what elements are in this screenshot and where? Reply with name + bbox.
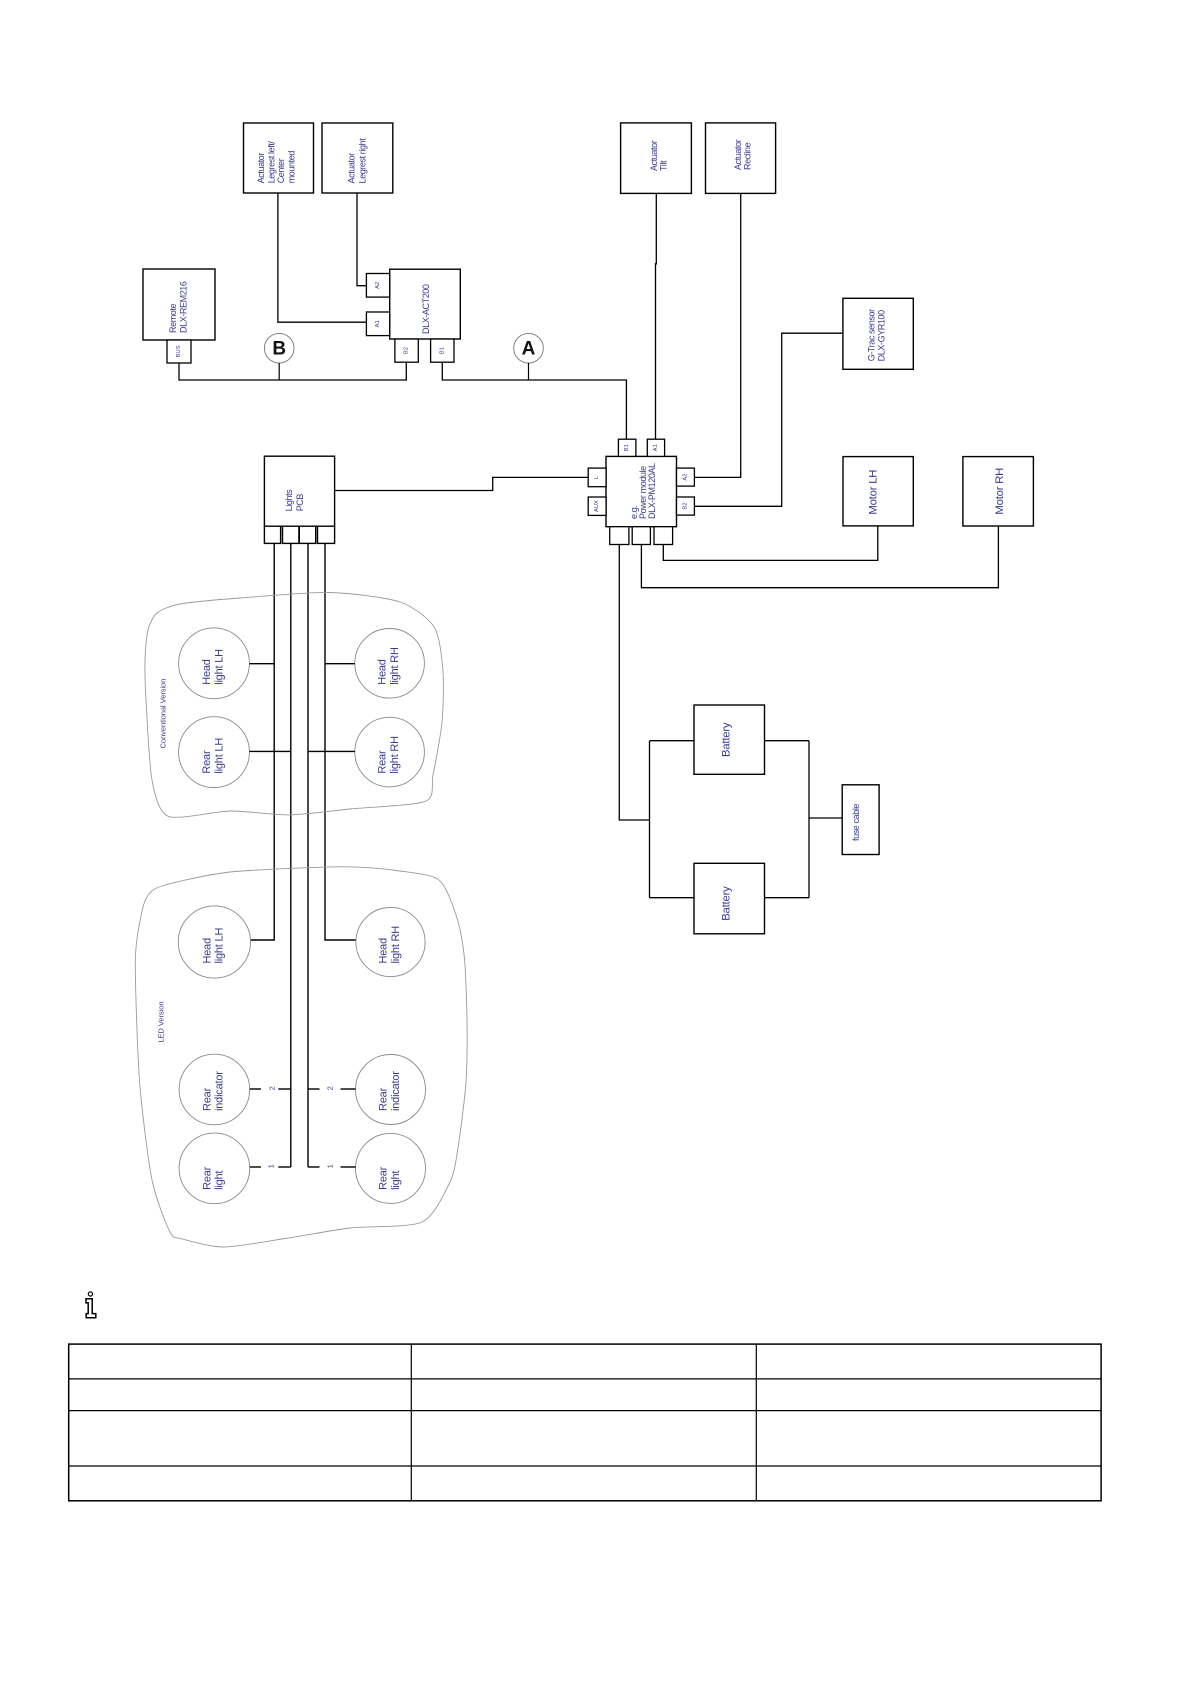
wire Rear light LH tap (249, 750, 290, 752)
connector B2 of power module (677, 497, 695, 515)
svg-text:1: 1 (326, 1164, 335, 1168)
wire Remote BUS to ACT200 B2 (bus B) (179, 362, 406, 380)
wire Rear indicator LH tap segment a (250, 1088, 261, 1090)
wire Actuator Legrest left to ACT200 A1 (278, 193, 367, 322)
node B callout circle (264, 333, 294, 363)
svg-text:Rear: Rear (201, 1166, 213, 1190)
svg-text:DLX-PM120AL: DLX-PM120AL (647, 463, 657, 519)
svg-text:indicator: indicator (214, 1071, 226, 1111)
wire battery left bus (649, 741, 651, 898)
box G-Trac sensor DLX-GYR100 (843, 298, 913, 369)
circle Head light RH (conventional) (355, 629, 425, 699)
svg-text:Head: Head (201, 938, 213, 964)
svg-text:Motor RH: Motor RH (994, 468, 1006, 515)
wire lights line 4 (325, 543, 356, 940)
svg-text:G-Trac sensor: G-Trac sensor (867, 309, 877, 361)
svg-text:light LH: light LH (213, 649, 225, 685)
svg-text:DLX-REM216: DLX-REM216 (179, 281, 189, 333)
wire power module M3 to Motor LH (663, 526, 878, 561)
wire Actuator Recline to power module A2 (694, 193, 740, 477)
svg-text:light RH: light RH (390, 926, 402, 964)
connector AUX of power module (588, 497, 606, 515)
svg-text:2: 2 (268, 1086, 277, 1090)
svg-text:A2: A2 (375, 282, 381, 289)
svg-text:Remote: Remote (168, 303, 178, 333)
wire lights line 2 (290, 543, 292, 1167)
svg-text:light LH: light LH (214, 928, 226, 964)
info icon (outlined i) (88, 1292, 92, 1296)
wire Rear light LH tap segment a (250, 1166, 261, 1168)
wire Lights PCB to power module L (335, 477, 589, 490)
svg-text:Battery: Battery (720, 722, 732, 757)
connector M2 of power module (bottom middle) (632, 527, 650, 545)
connector 1 of Lights PCB (264, 526, 280, 543)
wire battery lower left (650, 897, 695, 899)
svg-text:AUX: AUX (594, 500, 600, 512)
wire G-Trac sensor to power module B2 (694, 333, 843, 506)
box Motor RH (963, 457, 1034, 526)
box fuse cable (842, 785, 879, 855)
connector A2 of power module (677, 468, 695, 486)
wire battery upper left (650, 740, 695, 742)
svg-text:Head: Head (201, 659, 213, 685)
svg-text:indicator: indicator (390, 1071, 402, 1111)
svg-text:fuse cable: fuse cable (851, 804, 861, 841)
node A callout circle (514, 333, 544, 363)
svg-text:Actuator: Actuator (256, 153, 266, 184)
svg-text:Legrest left/: Legrest left/ (266, 141, 276, 184)
circle Rear light LH (LED) (179, 1133, 250, 1204)
svg-text:1: 1 (267, 1164, 276, 1168)
wire Actuator Tilt to power module A1 (655, 193, 658, 439)
svg-text:mounted: mounted (287, 151, 297, 184)
wire Rear light RH tap segment b (341, 1166, 356, 1168)
wire battery upper right (765, 740, 810, 742)
svg-text:B: B (272, 339, 286, 360)
svg-text:A2: A2 (682, 474, 688, 481)
box Battery lower (694, 863, 765, 934)
svg-text:Actuator: Actuator (649, 140, 659, 171)
svg-text:LED Version: LED Version (156, 1002, 165, 1043)
connector L of power module (588, 468, 606, 487)
connector 2 of Lights PCB (283, 526, 299, 543)
svg-text:Lights: Lights (284, 489, 294, 512)
wire Actuator Legrest right to ACT200 A2 (357, 193, 366, 286)
outline LED Version group (135, 867, 467, 1247)
svg-text:Head: Head (378, 938, 390, 964)
box Battery upper (694, 705, 765, 774)
table (empty 3x4) (69, 1344, 1101, 1501)
wire Rear light LH tap segment b (278, 1166, 291, 1168)
svg-text:Rear: Rear (378, 1087, 390, 1111)
wire battery lower right (765, 897, 810, 899)
svg-text:light RH: light RH (389, 736, 401, 774)
svg-text:Rear: Rear (201, 750, 213, 774)
svg-text:Legrest right: Legrest right (357, 138, 367, 184)
circle Rear light RH (LED) (356, 1133, 426, 1203)
connector A2 of DLX-ACT200 (366, 274, 389, 298)
circle Rear light LH (conventional) (179, 717, 250, 788)
wire power module M1 to battery bus (619, 545, 649, 821)
svg-text:B1: B1 (439, 347, 445, 354)
wire Rear light RH tap segment a (308, 1166, 320, 1168)
wire stub node B to bus (278, 363, 280, 380)
wire ACT200 B1 to power module B1 (bus A) (442, 362, 626, 439)
circle Head light RH (LED) (356, 907, 425, 976)
connector A1 of power module (647, 439, 664, 456)
box DLX-ACT200 (390, 269, 461, 339)
svg-text:Center: Center (276, 158, 286, 183)
circle Rear indicator RH (LED) (356, 1055, 426, 1125)
outline Conventional Version group (145, 592, 443, 817)
svg-text:B1: B1 (624, 444, 630, 451)
svg-text:A: A (522, 339, 536, 360)
connector BUS of Remote (167, 340, 191, 363)
box Actuator Tilt (621, 123, 692, 193)
svg-text:Actuator: Actuator (346, 153, 356, 184)
wire Head light LH tap (249, 663, 274, 665)
svg-text:Rear: Rear (378, 1166, 390, 1190)
connector M3 of power module (bottom right) (654, 527, 673, 545)
svg-text:A1: A1 (653, 444, 659, 451)
box Actuator Recline (706, 123, 776, 193)
svg-text:PCB: PCB (295, 494, 305, 512)
svg-text:light: light (214, 1171, 226, 1190)
svg-text:Conventional Version: Conventional Version (158, 679, 167, 749)
svg-text:DLX-ACT200: DLX-ACT200 (421, 284, 431, 334)
circle Head light LH (conventional) (179, 628, 250, 699)
svg-text:BUS: BUS (176, 345, 182, 357)
circle Rear light RH (conventional) (355, 717, 425, 787)
svg-text:Recline: Recline (742, 142, 752, 170)
wire Rear indicator RH tap segment b (341, 1088, 356, 1090)
connector B2 of DLX-ACT200 (395, 339, 418, 362)
connector 4 of Lights PCB (318, 526, 335, 543)
svg-text:Head: Head (377, 659, 389, 685)
box power module DLX-PM120AL (606, 456, 677, 526)
svg-text:light LH: light LH (213, 738, 225, 774)
svg-text:light: light (390, 1171, 402, 1190)
connector 3 of Lights PCB (299, 526, 315, 543)
circle Rear indicator LH (LED) (179, 1054, 250, 1125)
svg-text:light RH: light RH (389, 647, 401, 685)
wire Rear indicator RH tap segment a (308, 1088, 320, 1090)
box Motor LH (843, 457, 913, 526)
svg-text:B2: B2 (682, 503, 688, 510)
wire power module M2 to Motor RH (641, 526, 998, 588)
wire lights line 1 (251, 543, 275, 940)
svg-text:A1: A1 (375, 320, 381, 327)
connector B1 of power module (618, 439, 636, 456)
svg-text:Tilt: Tilt (659, 160, 669, 171)
svg-text:Motor LH: Motor LH (867, 470, 879, 515)
wire stub node A to bus (528, 363, 530, 380)
connector B1 of DLX-ACT200 (431, 339, 454, 362)
box Actuator Legrest left/Center mounted (244, 123, 314, 193)
wire Rear indicator LH tap segment b (278, 1088, 291, 1090)
wire lights line 3 (307, 543, 309, 1167)
connector A1 of DLX-ACT200 (366, 312, 389, 336)
connector M1 of power module (bottom left) (610, 527, 629, 545)
box Remote DLX-REM216 (143, 269, 215, 340)
wire battery bus to fuse cable (809, 817, 842, 819)
svg-text:DLX-GYR100: DLX-GYR100 (877, 310, 887, 361)
svg-text:B2: B2 (404, 347, 410, 354)
svg-text:Battery: Battery (720, 886, 732, 921)
box Actuator Legrest right (322, 123, 393, 193)
wire battery right bus (808, 741, 810, 898)
box Lights PCB (264, 456, 334, 526)
circle Head light LH (LED) (178, 906, 250, 978)
svg-text:Rear: Rear (201, 1087, 213, 1111)
svg-text:Rear: Rear (377, 750, 389, 774)
wire Head light RH tap (325, 663, 355, 665)
svg-text:2: 2 (326, 1086, 335, 1090)
wire Rear light RH tap (308, 750, 355, 752)
